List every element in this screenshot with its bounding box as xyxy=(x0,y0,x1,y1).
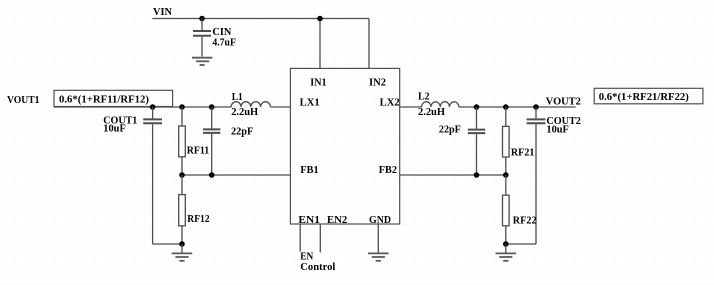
inductor L2 xyxy=(422,102,459,107)
ground for CIN xyxy=(192,58,212,65)
svg-text:Control: Control xyxy=(300,262,335,273)
svg-text:0.6*(1+RF11/RF12): 0.6*(1+RF11/RF12) xyxy=(59,94,149,105)
label COUT2 xyxy=(546,116,581,127)
svg-text:GND: GND xyxy=(369,215,391,226)
formula box VOUT2 xyxy=(594,88,703,104)
junction dot CIN tap xyxy=(199,16,205,22)
svg-text:4.7uF: 4.7uF xyxy=(212,37,236,48)
junction dot RF21 bottom xyxy=(503,172,509,178)
junction dot output2 ground node xyxy=(503,241,509,247)
svg-text:FB2: FB2 xyxy=(379,165,397,176)
resistor RF12 xyxy=(179,175,186,244)
svg-text:RF22: RF22 xyxy=(513,216,537,227)
pin label LX1 xyxy=(300,97,320,108)
svg-text:IN2: IN2 xyxy=(369,77,386,88)
junction dot IN1 tap xyxy=(317,16,323,22)
junction dot RF11 top xyxy=(179,104,185,110)
wire FB2 feedback xyxy=(400,174,506,176)
svg-text:RF21: RF21 xyxy=(511,147,535,158)
label COUT2 value 10uF xyxy=(546,124,569,135)
wire COUT2 return xyxy=(506,243,536,245)
pin label FB1 xyxy=(300,165,318,176)
svg-text:EN: EN xyxy=(300,252,313,263)
wire EN2 stub xyxy=(319,224,321,252)
wire IN1 drop xyxy=(319,19,321,69)
capacitor CIN xyxy=(193,19,211,57)
resistor RF21 xyxy=(503,107,510,175)
label RF11 xyxy=(187,146,210,157)
junction dot RF21 top xyxy=(503,104,509,110)
wire EN1 stub xyxy=(299,224,301,252)
junction dot C22pF-2 top xyxy=(474,104,480,110)
svg-text:CIN: CIN xyxy=(212,27,231,38)
label L2 value 2.2uH xyxy=(418,107,445,118)
svg-text:VIN: VIN xyxy=(153,7,172,18)
svg-text:22pF: 22pF xyxy=(231,127,253,138)
svg-text:0.6*(1+RF21/RF22): 0.6*(1+RF21/RF22) xyxy=(599,92,689,103)
label COUT1 xyxy=(103,115,137,126)
wire LX2 rail to VOUT2 xyxy=(400,106,576,108)
svg-text:L2: L2 xyxy=(418,91,430,102)
svg-text:FB1: FB1 xyxy=(300,165,318,176)
pin label EN1 xyxy=(298,215,320,226)
label L1 value 2.2uH xyxy=(231,107,258,118)
label C2 value 22pF xyxy=(439,124,461,135)
wire VOUT1 rail to LX1 xyxy=(54,106,290,108)
wire GND stub xyxy=(377,224,379,253)
svg-text:LX1: LX1 xyxy=(300,97,320,108)
svg-text:VOUT1: VOUT1 xyxy=(7,95,40,106)
wire FB1 feedback xyxy=(182,174,290,176)
pin label IN2 xyxy=(369,77,386,88)
svg-text:EN2: EN2 xyxy=(327,215,347,226)
node VIN label xyxy=(153,7,172,18)
pin label FB2 xyxy=(379,165,397,176)
junction dot output1 ground node xyxy=(179,241,185,247)
label CIN xyxy=(212,27,231,38)
svg-text:10uF: 10uF xyxy=(103,124,126,135)
svg-text:10uF: 10uF xyxy=(546,124,569,135)
junction dot COUT2 tap xyxy=(533,104,539,110)
formula box VOUT1 xyxy=(54,90,173,106)
capacitor COUT1 xyxy=(143,107,162,244)
node VOUT2 label xyxy=(546,97,581,108)
label L1 xyxy=(232,92,243,103)
wire VIN top rail xyxy=(152,18,369,20)
pin label GND xyxy=(369,215,391,226)
label RF21 xyxy=(511,147,535,158)
label RF12 xyxy=(187,214,209,225)
resistor RF22 xyxy=(503,175,510,244)
svg-text:2.2uH: 2.2uH xyxy=(418,107,445,118)
svg-text:IN1: IN1 xyxy=(310,77,326,88)
junction dot C22pF-2 bottom xyxy=(474,172,480,178)
capacitor C1 22pF xyxy=(203,107,220,175)
label COUT1 value 10uF xyxy=(103,124,126,135)
node VOUT1 label xyxy=(7,95,40,106)
pin label IN1 xyxy=(310,77,326,88)
label CIN value 4.7uF xyxy=(212,37,236,48)
inductor L1 xyxy=(231,102,270,107)
svg-text:RF12: RF12 xyxy=(187,214,209,225)
ground for output2 xyxy=(496,253,517,260)
junction dot RF11 bottom xyxy=(179,172,185,178)
label C1 value 22pF xyxy=(231,127,253,138)
svg-text:EN1: EN1 xyxy=(298,215,320,226)
capacitor COUT2 xyxy=(527,107,546,244)
pin label EN2 xyxy=(327,215,347,226)
svg-text:L1: L1 xyxy=(232,92,243,103)
wire COUT1 return xyxy=(153,243,182,245)
wire IN2 drop xyxy=(368,19,370,69)
ground for output1 xyxy=(172,253,193,260)
label L2 xyxy=(418,91,430,102)
pin label LX2 xyxy=(380,97,400,108)
junction dot COUT1 tap xyxy=(150,104,156,110)
label EN Control xyxy=(300,252,335,273)
wire ground stub output1 xyxy=(181,244,183,253)
capacitor C2 22pF xyxy=(468,107,485,175)
resistor RF11 xyxy=(179,107,186,175)
svg-text:LX2: LX2 xyxy=(380,97,400,108)
svg-text:22pF: 22pF xyxy=(439,124,461,135)
junction dot C22pF-1 top xyxy=(209,104,215,110)
wire ground stub output2 xyxy=(505,244,507,253)
svg-text:RF11: RF11 xyxy=(187,146,210,157)
svg-text:2.2uH: 2.2uH xyxy=(231,107,258,118)
ground for IC GND xyxy=(368,253,389,260)
label RF22 xyxy=(513,216,537,227)
junction dot C22pF-1 bottom xyxy=(209,172,215,178)
svg-text:VOUT2: VOUT2 xyxy=(546,97,581,108)
IC U1 body xyxy=(290,68,399,224)
